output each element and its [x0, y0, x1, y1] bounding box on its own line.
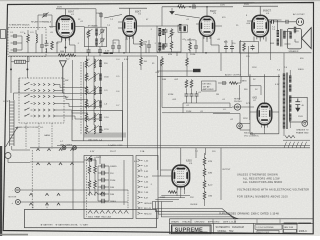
wire speaker internals: [284, 31, 298, 44]
title dark bar 2: [298, 223, 311, 224]
IF transformer T3 box: [157, 26, 181, 52]
contact arrow bus2 60.5: [59, 163, 62, 165]
socket contact 5: [138, 180, 143, 183]
contact arrow bus 38: [36, 149, 39, 151]
pot volume control: [237, 123, 243, 129]
dashed box antenna terminals: [8, 28, 46, 57]
wire main bus: [9, 52, 312, 54]
winding T2 secondary: [95, 39, 97, 46]
contact arrow bus2 38: [36, 163, 39, 165]
resistor R10 horiz: [229, 82, 238, 85]
junction dot B: [26, 68, 28, 70]
coil bank L15: [94, 125, 95, 134]
SUPREME underline bar: [175, 231, 208, 234]
wire panel top runs: [84, 156, 100, 166]
wire top rail V3: [162, 6, 233, 8]
junction dot V4 line: [270, 21, 272, 23]
capacitor panel C25: [100, 199, 106, 203]
wire T3 internals: [160, 34, 172, 52]
title block top lines: [169, 219, 313, 234]
wire switch row 4: [55, 104, 99, 107]
capacitor C-line2: [284, 20, 290, 24]
title small box 1: [255, 225, 282, 229]
wire V1 side leads: [49, 26, 85, 28]
box power panel: [84, 156, 133, 219]
contact arrow bus2 49: [47, 163, 50, 165]
tube V1 6SA7 converter: [57, 16, 75, 41]
socket contact 7: [138, 191, 143, 194]
coil bank L13: [94, 100, 95, 109]
resistor R30: [168, 191, 177, 194]
wire V4 pins down: [254, 37, 266, 54]
junction dot V1: [65, 47, 67, 49]
coil bank L11: [94, 73, 95, 82]
capacitor CB: [12, 41, 18, 45]
dashed line coil bank: [80, 62, 82, 135]
wire panel cols: [90, 157, 96, 196]
wire stair 4: [161, 202, 238, 219]
capacitor CA: [12, 34, 18, 38]
wire panel cap 1: [98, 172, 109, 174]
transformer T6 core: [287, 73, 288, 130]
wire V3 grid diag: [175, 14, 200, 18]
resistor panel R23: [94, 180, 97, 189]
switch wafer S2: [24, 88, 55, 91]
socket contact 1: [138, 159, 143, 162]
wire V6 pins: [177, 187, 185, 198]
capacitor C15: [221, 81, 227, 85]
wire divider chain: [204, 153, 206, 206]
trimmer arrow bank 2: [88, 87, 99, 95]
contact arrows motor lines 31: [29, 193, 32, 205]
socket contact 9: [138, 201, 143, 204]
box coil bank right: [122, 62, 124, 141]
wire switch row 5: [55, 110, 88, 113]
switch wafer S4: [24, 101, 55, 104]
capacitor C13: [224, 45, 228, 51]
dial lamp I1: [62, 146, 66, 150]
wire diag to V2 cap: [104, 15, 122, 19]
title dividers: [214, 223, 298, 233]
winding T3 secondary: [158, 43, 161, 51]
resistor bank R13: [85, 100, 88, 109]
trimmer arrow bank 3: [88, 100, 99, 108]
tuning arrow loop: [6, 127, 18, 147]
wire V5 left stub: [250, 86, 261, 95]
wire stair 2: [155, 202, 235, 219]
junction dots rail: [189, 6, 208, 8]
transformer T5 secondary: [283, 31, 285, 39]
wire V5 side leads: [250, 112, 279, 134]
tube V4 6V6GT output: [252, 15, 269, 39]
wire V5 enclosure: [250, 74, 279, 134]
winding bank W12: [99, 87, 101, 94]
resistor bank R11: [85, 73, 88, 82]
wire switch row 3: [55, 96, 88, 99]
resistor R34: [203, 191, 206, 200]
switch wafer S5: [24, 108, 55, 111]
socket contact 2: [138, 164, 143, 167]
IF transformer T2 box: [85, 27, 107, 47]
resistor R3: [140, 39, 143, 48]
capacitor T3b: [164, 42, 168, 48]
resistor R32: [203, 168, 206, 177]
capacitor panel C22: [100, 178, 106, 182]
capacitor stack C16: [185, 92, 189, 98]
wire T2 internals: [89, 34, 103, 47]
wire R4C12: [190, 38, 196, 53]
wire caps stack: [183, 89, 230, 103]
socket contact 8: [138, 196, 143, 199]
wire switch row 6: [55, 116, 99, 119]
wire top rail V2: [119, 7, 147, 9]
socket contact 6: [138, 186, 143, 189]
wire panel cap 5: [98, 200, 109, 202]
winding bank W14: [99, 114, 101, 121]
dark cap blob: [193, 69, 201, 72]
terminal circle loop: [5, 153, 11, 159]
tube V2 6SK7 IF amplifier: [123, 16, 137, 40]
speaker cone: [302, 28, 312, 49]
winding bank W13: [99, 101, 101, 108]
trimmer arrows T3: [158, 30, 175, 51]
cluster below T2: [87, 47, 103, 56]
wire top rail V1: [56, 8, 79, 10]
wire top rail V4: [243, 5, 278, 7]
wire ant caps: [11, 36, 23, 50]
title bottom line: [169, 233, 313, 235]
transformer T6 primary windings: [283, 74, 285, 129]
winding T3 secondary b: [162, 44, 164, 50]
capacitor rail link: [99, 12, 103, 18]
label 6J5G V-6: [186, 160, 193, 166]
wire V6 top leads: [152, 148, 181, 176]
SUPREME logo inner rule: [173, 226, 210, 233]
dial lamp I2: [73, 146, 77, 150]
capacitor panel C20: [100, 164, 106, 168]
winding bank W10: [99, 60, 101, 67]
socket contact 10: [138, 207, 143, 210]
trimmer arrow bank 0: [88, 60, 99, 68]
resistor bank R15: [85, 125, 88, 134]
scan edge artifact bottom-left: [0, 234, 28, 236]
capacitor panel C24: [100, 192, 106, 196]
wire AF bus: [157, 75, 280, 77]
twisted heater leads hatch: [283, 140, 310, 148]
wire long riser B: [158, 56, 161, 176]
resistor below bus: [140, 57, 143, 66]
resistor panel R22: [94, 165, 97, 174]
trimmer top: [42, 13, 49, 18]
capacitor C11: [147, 43, 151, 49]
coil bank L14: [94, 113, 95, 122]
wire heater bus: [30, 147, 310, 149]
box battery compartment: [24, 210, 156, 228]
wire right risers: [196, 148, 221, 200]
wire switch row 1: [55, 85, 88, 88]
label 6SA7 V-1: [68, 11, 75, 17]
solder blobs bus: [104, 52, 113, 54]
wire panel right col: [98, 160, 124, 205]
resistor R31: [203, 157, 206, 166]
wire bus2: [30, 161, 84, 163]
capacitor CD: [40, 43, 44, 49]
contact arrow bus 49: [47, 149, 50, 151]
resistor bank R14: [85, 113, 88, 122]
wire riser osc box left: [72, 148, 74, 210]
wire antenna to loop: [14, 78, 63, 100]
capacitor T2a: [100, 28, 104, 34]
capacitor panel C21: [100, 171, 106, 175]
wire drops to switch: [11, 56, 27, 93]
resistor RA: [27, 34, 30, 43]
wire T6 leads: [284, 53, 290, 136]
tube V6 6J5G: [172, 165, 189, 190]
junction dot A: [10, 68, 12, 70]
wire coil RF leads: [11, 56, 29, 62]
speaker voice coil: [294, 27, 296, 33]
wire R6R7: [157, 53, 196, 77]
wire C13: [225, 40, 227, 53]
antenna symbol: [60, 61, 67, 93]
wire C15R10: [218, 76, 241, 83]
contact arrows motor lines 58.5: [57, 193, 60, 205]
label 6SQ7 V-3: [210, 10, 217, 15]
transformer T5 core: [281, 29, 282, 47]
wire V1 plate lead up: [65, 9, 67, 16]
wire switch row 2: [55, 91, 99, 94]
switch wafer S6: [24, 114, 55, 117]
capacitor stack C18: [195, 92, 199, 98]
coil bank L12: [94, 86, 95, 95]
coil RF top: [15, 60, 26, 63]
title small box 3: [284, 229, 297, 232]
socket contact 3: [138, 170, 143, 173]
wire panel cap 3: [98, 186, 109, 188]
socket contact 11: [138, 212, 143, 215]
wire V4 screen drop: [270, 22, 272, 60]
wire switch risers dashed: [26, 123, 52, 149]
title small box 2: [257, 231, 279, 234]
resistor R7: [186, 58, 189, 67]
trimmer arrow bank 5: [88, 126, 99, 134]
winding T2 primary: [95, 29, 97, 36]
winding bank W11: [99, 74, 101, 81]
resistor bank R10: [85, 59, 88, 68]
loop antenna: [10, 100, 15, 146]
capacitor C10: [117, 44, 121, 50]
capacitor T2b: [100, 37, 104, 43]
box socket strip: [136, 156, 158, 219]
scan edge artifact top: [0, 0, 320, 2]
terminal circle motor A: [15, 188, 20, 193]
wire twisted chassis: [285, 136, 295, 139]
switch wafer S1: [24, 82, 55, 85]
junction dots bus: [123, 52, 207, 54]
wire V2 side leads: [118, 22, 157, 28]
sub box T3 top: [178, 24, 188, 32]
wire AC outlet: [269, 21, 297, 23]
wire rect lower: [213, 114, 250, 131]
transformer T5 primary: [277, 30, 279, 46]
trimmer arrow bank 1: [88, 73, 99, 81]
box coil bank left edge: [83, 62, 85, 141]
resistor R5: [243, 43, 246, 52]
contact arrow bus2 72: [70, 163, 73, 165]
wire R3 C11: [141, 40, 149, 53]
wire stair 3: [158, 202, 237, 219]
wire V5 plate lead: [264, 74, 266, 103]
junction arrow panel top: [87, 156, 92, 161]
capacitor C12: [194, 44, 198, 50]
tube V5 6X5GT rectifier: [257, 103, 272, 128]
contact arrows panel bottom: [88, 211, 128, 214]
wire V4 side leads: [247, 20, 282, 21]
capacitor on rail: [191, 5, 197, 9]
wire panel cap 2: [98, 179, 109, 181]
wire V4 plate lead up: [259, 6, 261, 15]
contact arrows motor lines 47: [45, 193, 48, 205]
wire resistor below bus: [140, 53, 142, 70]
wire panel cap 4: [98, 193, 109, 195]
wire V3 plate lead up: [206, 7, 208, 17]
capacitor T3a: [164, 28, 168, 34]
comb teeth oscillator: [85, 133, 125, 138]
wire rail to T2: [79, 9, 101, 27]
wire coil bank verticals: [87, 56, 101, 126]
scan edge artifact left: [0, 146, 2, 236]
resistor R4: [189, 42, 192, 51]
arrow junction IFT2 top: [169, 11, 175, 14]
scan mark left margin: [1, 30, 6, 39]
wire to V5: [230, 76, 254, 120]
wire long riser right: [71, 60, 73, 120]
resistor R8: [185, 80, 188, 89]
speaker field coil: [289, 32, 291, 39]
wire V2 pins down: [126, 36, 146, 53]
dashed box band selector: [19, 78, 64, 123]
title header ticks: [191, 219, 280, 223]
trimmer arrow bank 4: [88, 114, 99, 122]
wire V2 plate lead up: [129, 8, 131, 16]
box V4 cathode: [240, 42, 259, 54]
jack phono: [234, 104, 240, 110]
label 6X5 GT V-5: [253, 96, 258, 102]
resistor R6: [161, 58, 164, 67]
wire V3 pins down: [203, 36, 219, 52]
resistor panel R21: [88, 180, 91, 189]
speaker box: [287, 29, 301, 49]
winding T3 primary: [158, 28, 161, 36]
tube V3 6SQ7 det-AVC-AF: [199, 16, 214, 39]
capacitor C-line1: [270, 20, 276, 24]
capacitor C14: [251, 45, 255, 51]
capacitor panel C23: [100, 185, 106, 189]
contact arrows panel mid: [88, 192, 104, 195]
box oscillator coil: [72, 111, 123, 141]
coil bank L10: [94, 59, 95, 68]
resistor R33: [203, 180, 206, 189]
resistor panel R20: [88, 165, 91, 174]
wire IFT2 feed: [162, 7, 177, 56]
resistor R9: [190, 80, 193, 89]
socket contact 4: [138, 175, 143, 178]
winding T3 primary b: [162, 29, 164, 35]
wire af lower: [162, 76, 232, 113]
contact arrow bus 60.5: [59, 149, 62, 151]
winding bank W15: [99, 126, 101, 133]
dashed riser bottom-left: [31, 150, 33, 210]
wire battery drops: [33, 190, 128, 210]
wire cluster links: [28, 30, 42, 53]
wire long riser A: [127, 56, 129, 148]
SUPREME logo box: [172, 225, 212, 234]
wire V6 cathode returns: [152, 196, 190, 202]
trimmer arrows T2: [86, 29, 105, 44]
box filter: [290, 97, 308, 122]
capacitor C9: [111, 44, 115, 50]
wire panel cap 0: [98, 165, 109, 167]
wire C13b: [231, 40, 233, 53]
resistor on rail: [177, 6, 186, 9]
dashed divider panel: [86, 157, 88, 217]
resistor T2a: [87, 30, 90, 39]
pot tone control: [302, 121, 308, 127]
resistor T3a: [170, 29, 173, 38]
resistor T3b: [170, 41, 173, 50]
AC outlet: [296, 18, 303, 25]
wire V3 side leads: [196, 24, 222, 26]
resistor R2 horizontal: [58, 54, 76, 57]
coil LA: [36, 34, 37, 43]
wire loop bottom: [8, 146, 30, 163]
capacitor C13b: [230, 45, 234, 51]
wire stair 1: [152, 202, 234, 219]
label 6SK7 V-2: [135, 10, 142, 15]
resistor R1: [51, 41, 54, 50]
wire C9C10: [113, 40, 119, 53]
contact arrow bus 72: [70, 149, 73, 151]
capacitor stack C17: [190, 92, 194, 98]
wire risers mid: [221, 40, 249, 100]
transformer T6 secondary: [289, 76, 291, 121]
capacitor electrolytic C20: [295, 99, 303, 112]
wire trimmer leads: [38, 15, 52, 30]
capacitor C8: [45, 40, 49, 53]
resistor bank R12: [85, 86, 88, 95]
wire motor line A: [20, 189, 128, 191]
terminal circle motor B: [15, 200, 20, 205]
wire V4 plate to T5: [269, 20, 278, 30]
capacitor CC: [12, 48, 18, 52]
switch wafer S3: [24, 94, 55, 97]
title dark bar 1: [284, 223, 298, 225]
box AF label: [202, 81, 217, 91]
label 6V6GT V-4: [263, 10, 271, 15]
wire heater bus return: [57, 144, 310, 146]
wire secondary bus: [9, 55, 157, 57]
wire V1 pins down: [57, 38, 75, 53]
wire motor line B: [20, 201, 128, 203]
